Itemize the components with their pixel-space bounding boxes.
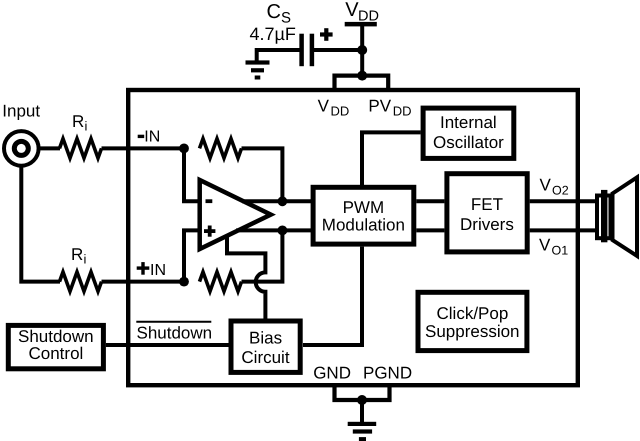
wire op-amp to bias circuit with crossover hop	[227, 236, 265, 320]
svg-text:Control: Control	[29, 344, 84, 363]
svg-text:R: R	[72, 112, 84, 131]
ground (bottom)	[348, 422, 377, 441]
svg-text:PGND: PGND	[363, 363, 412, 382]
label VO2	[540, 175, 569, 197]
svg-text:PWM: PWM	[343, 198, 385, 217]
wire shutdown control to bias circuit	[106, 343, 231, 347]
svg-text:DD: DD	[393, 104, 412, 119]
junction dot CS/VDD	[357, 45, 367, 55]
input jack connector	[4, 131, 39, 166]
block Click/Pop Suppression	[418, 292, 527, 350]
wire op-amp upper output to PWM	[242, 199, 313, 203]
capacitor CS polarity plus mark	[320, 28, 333, 41]
wire Ri bottom to +IN node	[102, 280, 185, 284]
wire VDD rail down to bridge	[360, 26, 364, 77]
supply rail VDD bar	[345, 22, 377, 27]
junction dot upper output	[278, 196, 288, 206]
wire VO2 output to speaker	[530, 199, 596, 203]
wire -IN node to op-amp inverting input	[184, 148, 199, 201]
svg-text:Shutdown: Shutdown	[137, 324, 213, 343]
resistor Ri (bottom input)	[60, 272, 102, 291]
svg-text:DD: DD	[331, 104, 350, 119]
svg-text:Input: Input	[2, 102, 40, 121]
wire +IN node to op-amp non-inverting input	[184, 230, 199, 281]
resistor feedback (bottom)	[200, 272, 242, 291]
svg-text:Circuit: Circuit	[241, 348, 289, 367]
svg-text:V: V	[539, 235, 551, 254]
pin label PVDD	[368, 97, 411, 119]
resistor Ri (top input)	[60, 139, 102, 158]
svg-text:V: V	[318, 97, 330, 116]
wire op-amp lower output to PWM	[236, 228, 313, 232]
op-amp plus mark	[204, 226, 215, 237]
node +IN junction dot	[179, 277, 189, 287]
svg-text:Suppression: Suppression	[425, 322, 520, 341]
wire jack down to Ri bottom	[21, 166, 60, 282]
svg-text:PV: PV	[368, 97, 391, 116]
wire GND and PGND pins to bridge	[335, 385, 390, 400]
svg-text:O1: O1	[552, 243, 569, 257]
ground (top left, CS)	[246, 60, 270, 79]
svg-text:Oscillator: Oscillator	[433, 133, 504, 152]
block Shutdown Control	[8, 325, 103, 368]
svg-text:GND: GND	[313, 363, 351, 382]
wire CS left plate to ground	[257, 50, 300, 61]
block FET Drivers	[447, 174, 527, 252]
svg-text:Bias: Bias	[249, 329, 282, 348]
svg-text:Modulation: Modulation	[322, 215, 405, 234]
wire oscillator to PWM	[362, 132, 421, 185]
svg-text:Shutdown: Shutdown	[18, 327, 94, 346]
svg-text:O2: O2	[552, 184, 569, 198]
resistor feedback (top)	[200, 139, 242, 158]
label VDD supply	[345, 0, 379, 25]
wire feedback bottom to output	[242, 230, 283, 281]
svg-text:IN: IN	[144, 129, 160, 146]
svg-text:i: i	[84, 252, 87, 267]
svg-text:i: i	[85, 119, 88, 134]
IC boundary box	[128, 90, 578, 385]
value label 4.7uF	[250, 24, 296, 44]
wire PWM to FET upper	[416, 199, 444, 203]
junction dot ground bridge	[357, 395, 367, 405]
wire feedback top to output	[242, 148, 283, 201]
svg-text:IN: IN	[150, 262, 166, 279]
node -IN junction dot	[179, 144, 189, 154]
op-amp U1 triangle	[200, 180, 271, 249]
op-amp minus mark	[206, 199, 213, 203]
svg-text:V: V	[540, 175, 552, 194]
block Bias Circuit	[231, 321, 300, 372]
pin label VDD	[318, 97, 350, 119]
net label Shutdown (active low)	[136, 322, 212, 343]
pin label +IN	[137, 262, 166, 279]
svg-text:FET: FET	[471, 195, 503, 214]
wire Ri top to -IN node	[102, 146, 185, 150]
block Internal Oscillator	[423, 108, 514, 158]
wire CS right plate to VDD node	[314, 48, 362, 52]
svg-text:4.7µF: 4.7µF	[250, 24, 296, 44]
svg-text:C: C	[267, 1, 281, 23]
junction dot lower output	[278, 226, 288, 236]
wire supply bridge to VDD and PVDD pins	[335, 76, 389, 90]
wire PWM bottom to bias circuit	[303, 247, 362, 345]
wire bridge to ground symbol	[360, 400, 364, 422]
block PWM Modulation	[313, 187, 414, 244]
wire PWM to FET lower	[416, 228, 444, 232]
label Ri (bottom)	[71, 245, 87, 267]
wire jack to Ri top	[39, 146, 60, 150]
wire VO1 output to speaker	[530, 228, 596, 232]
svg-text:Internal: Internal	[440, 113, 497, 132]
label VO1	[539, 235, 568, 257]
label Ri (top)	[72, 112, 88, 134]
capacitor CS	[302, 34, 312, 66]
pin label -IN	[138, 129, 161, 146]
speaker	[597, 177, 637, 256]
svg-text:Drivers: Drivers	[460, 215, 514, 234]
svg-text:Click/Pop: Click/Pop	[437, 304, 509, 323]
svg-text:R: R	[71, 245, 83, 264]
junction dot supply bridge	[357, 71, 367, 81]
label CS	[267, 1, 292, 27]
